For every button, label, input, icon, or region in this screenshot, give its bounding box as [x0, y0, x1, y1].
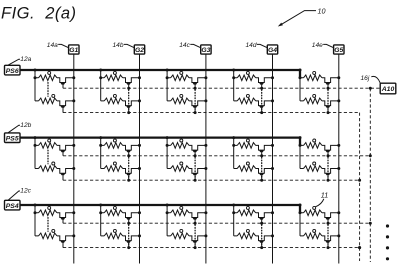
svg-text:G1: G1 — [69, 47, 78, 54]
svg-text:FIG. 2(a): FIG. 2(a) — [1, 5, 76, 23]
svg-text:12a: 12a — [20, 56, 31, 63]
svg-text:14a: 14a — [47, 42, 58, 49]
svg-text:PS6: PS6 — [6, 68, 19, 75]
svg-text:10: 10 — [318, 7, 326, 16]
svg-text:G2: G2 — [135, 47, 144, 54]
svg-text:12c: 12c — [20, 188, 31, 195]
svg-text:G4: G4 — [268, 47, 277, 54]
svg-text:G5: G5 — [334, 47, 343, 54]
svg-text:PS4: PS4 — [6, 203, 19, 210]
svg-text:12b: 12b — [20, 122, 31, 129]
svg-text:14c: 14c — [179, 42, 190, 49]
svg-text:16j: 16j — [361, 75, 370, 82]
svg-text:PS5: PS5 — [6, 135, 19, 142]
svg-text:11: 11 — [321, 191, 328, 200]
svg-text:G3: G3 — [201, 47, 210, 54]
svg-text:14d: 14d — [245, 42, 256, 49]
svg-text:14e: 14e — [312, 42, 323, 49]
svg-text:14b: 14b — [112, 42, 123, 49]
svg-text:A10: A10 — [381, 86, 395, 93]
